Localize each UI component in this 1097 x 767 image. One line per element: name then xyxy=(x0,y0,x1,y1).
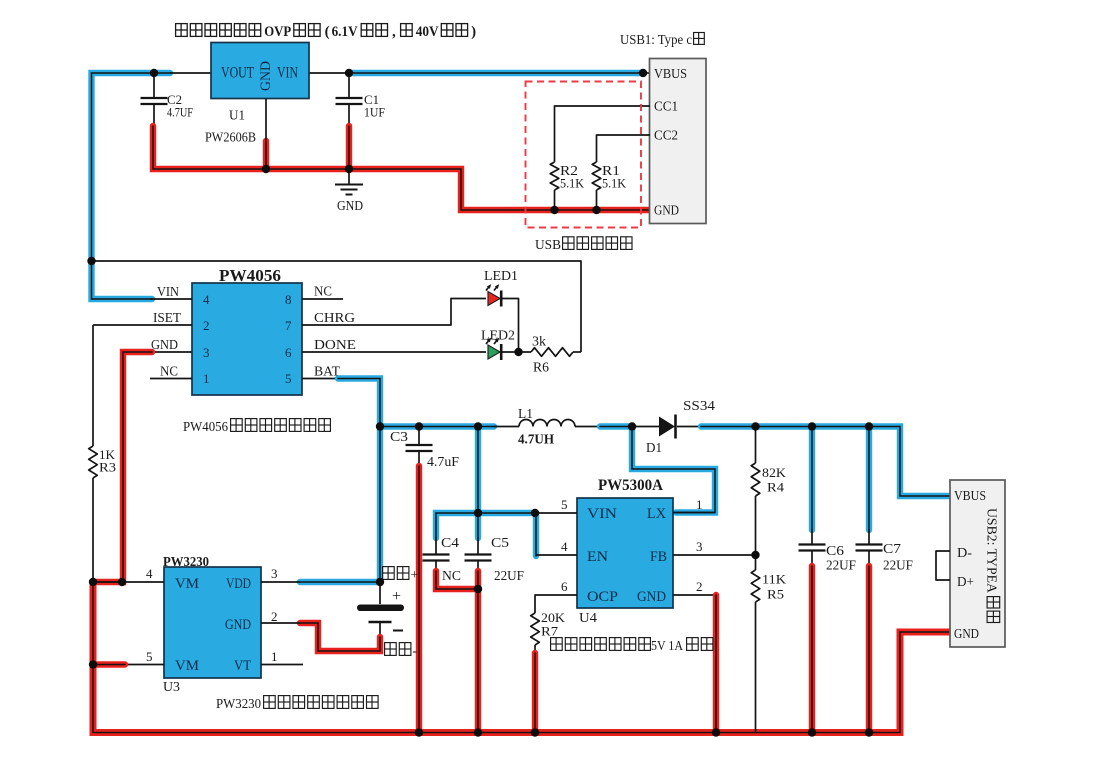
wire VBUS stub into USB1 xyxy=(643,72,650,74)
wire red C3 to ground bus xyxy=(416,466,422,733)
svg-text:R5: R5 xyxy=(767,587,784,602)
wire battery bottom lead xyxy=(379,623,381,638)
wire C6 top lead xyxy=(811,529,813,545)
label 电池- xyxy=(385,643,411,656)
svg-text:(: ( xyxy=(325,24,330,40)
wire DONE to LED2 xyxy=(302,351,486,353)
node VIN junction xyxy=(345,69,353,77)
wire C1 top lead xyxy=(348,73,350,98)
svg-text:-: - xyxy=(413,643,418,658)
wire CHRG to LED1 xyxy=(302,299,486,326)
svg-text:FB: FB xyxy=(650,549,667,565)
wire U3 VDD pin lead xyxy=(261,581,300,583)
resistor R1 xyxy=(592,162,601,190)
wire U1 GND pin lead xyxy=(265,99,267,141)
wire C6 bottom lead xyxy=(811,551,813,568)
wire ISET pin lead xyxy=(93,324,192,326)
svg-text:5: 5 xyxy=(285,371,292,386)
svg-text:VM: VM xyxy=(175,576,199,592)
LED LED1 red xyxy=(486,284,501,306)
wire U4 LX pin lead xyxy=(673,512,715,514)
annotation dashed box USB resistors xyxy=(526,82,642,228)
wire CC2 to R1 xyxy=(597,135,651,162)
capacitor C7 xyxy=(856,545,883,551)
wire red U4 GND to bus xyxy=(713,595,719,733)
wire U3 VM5 pin lead xyxy=(125,664,164,666)
wire red C6 to ground bus xyxy=(809,566,815,733)
svg-text:3: 3 xyxy=(203,345,210,360)
svg-text:VT: VT xyxy=(234,658,251,674)
svg-text:1: 1 xyxy=(203,371,210,386)
wire R7 bottom lead xyxy=(534,645,536,654)
node LX rail xyxy=(628,422,636,430)
node FB xyxy=(751,551,759,559)
svg-text:D+: D+ xyxy=(957,575,974,590)
svg-text:4: 4 xyxy=(561,539,568,554)
svg-text:SS34: SS34 xyxy=(683,398,715,413)
svg-text:LED1: LED1 xyxy=(484,269,518,284)
svg-text:4: 4 xyxy=(203,292,210,307)
svg-text:1UF: 1UF xyxy=(364,106,385,120)
svg-text:CC1: CC1 xyxy=(654,100,678,115)
wire R5 to ground bus xyxy=(755,602,757,733)
node battery plus xyxy=(376,578,384,586)
wire blue LX down to U4 xyxy=(632,427,715,513)
wire C4 top lead xyxy=(435,537,437,555)
svg-text:6: 6 xyxy=(285,345,292,360)
svg-text:8: 8 xyxy=(285,292,292,307)
wire red stub C1 bottom xyxy=(346,126,352,169)
wire blue rail BAT to L1 xyxy=(380,423,494,429)
svg-text:U1: U1 xyxy=(229,109,245,124)
wire red stub U1 GND pin xyxy=(263,141,269,169)
wire blue C7 drop xyxy=(866,427,872,531)
connector USB2 Type-A body xyxy=(950,480,1005,647)
resistor R6 3k xyxy=(531,348,573,357)
wire C2 bottom lead xyxy=(153,104,155,126)
svg-text:GND: GND xyxy=(954,627,979,642)
label USB2 TYPEA rotated 母座 xyxy=(987,597,1000,623)
svg-text:C4: C4 xyxy=(441,535,459,550)
node VM5 junction xyxy=(89,660,97,668)
svg-text:VBUS: VBUS xyxy=(654,67,687,82)
svg-text:7: 7 xyxy=(285,318,292,333)
node bus C6 xyxy=(808,728,816,736)
label USB comm resistors 口通讯电阻 xyxy=(563,237,632,250)
node VM4 left xyxy=(89,578,97,586)
wire C1 bottom lead xyxy=(348,104,350,126)
wire red battery minus to U3 GND xyxy=(300,623,380,651)
node R2 GND xyxy=(550,206,558,214)
wire C5 bottom lead xyxy=(477,561,479,573)
wire ISET down to R3 xyxy=(92,325,94,446)
LED LED2 green xyxy=(486,338,501,360)
svg-text:6: 6 xyxy=(561,579,568,594)
capacitor C1 xyxy=(336,98,363,104)
connector USB1 Type-C body xyxy=(650,59,707,224)
svg-text:2: 2 xyxy=(271,609,278,624)
wire U3 VM4 pin lead xyxy=(93,581,164,583)
svg-text:R4: R4 xyxy=(767,480,785,495)
node VM4 red xyxy=(118,578,126,586)
node C6 tap xyxy=(808,422,816,430)
svg-text:R6: R6 xyxy=(533,360,549,375)
svg-text:ISET: ISET xyxy=(153,310,182,325)
svg-text:NC: NC xyxy=(160,364,178,379)
svg-text:4.7uF: 4.7uF xyxy=(427,454,459,469)
wire CC1 to R2 xyxy=(555,106,651,162)
node C3 tap xyxy=(415,422,423,430)
svg-text:R7: R7 xyxy=(541,624,559,639)
svg-text:VIN: VIN xyxy=(277,65,298,82)
svg-text:PW5300A: PW5300A xyxy=(598,477,663,494)
svg-text:VIN: VIN xyxy=(587,506,617,522)
wire C5 top lead xyxy=(477,537,479,555)
wire R2 to GND bus xyxy=(554,190,556,210)
svg-text:GND: GND xyxy=(258,61,274,91)
IC U3 PW3230 body xyxy=(164,567,261,678)
wire rail to L1 xyxy=(494,426,519,428)
resistor R3 xyxy=(89,446,98,478)
wire blue C6 drop xyxy=(809,427,815,531)
wire U4 GND pin lead xyxy=(673,594,716,596)
inductor L1 xyxy=(519,420,575,427)
capacitor C4 xyxy=(423,555,450,561)
wire U3 GND pin lead xyxy=(261,622,300,624)
svg-text:VIN: VIN xyxy=(157,284,179,299)
svg-text:22UF: 22UF xyxy=(494,568,524,583)
svg-text:): ) xyxy=(471,24,476,40)
wire R3 down to VM row xyxy=(92,478,94,582)
wire U4 OCP pin lead and down xyxy=(535,595,577,613)
wire VIN pin lead xyxy=(150,298,192,300)
wire C2 top lead xyxy=(153,73,155,98)
svg-text:82K: 82K xyxy=(762,465,787,480)
wire GND pin lead xyxy=(150,351,192,353)
ground lead xyxy=(348,169,350,184)
wire C4 bottom lead xyxy=(435,561,437,573)
node VBUS at USB1 xyxy=(639,69,647,77)
wire R6 to corner xyxy=(573,351,581,353)
wire C3 top lead xyxy=(418,427,420,446)
node bus C5 xyxy=(474,728,482,736)
svg-text:PW4056: PW4056 xyxy=(183,419,228,434)
svg-text:2: 2 xyxy=(696,579,703,594)
label PW4056 caption 锂电池充电电路 xyxy=(231,419,331,432)
node C45 tap xyxy=(474,422,482,430)
wire NC pin8 lead xyxy=(302,298,343,300)
wire LED supply R6 to VIN rail xyxy=(92,261,582,352)
wire blue C5 drop xyxy=(475,513,481,538)
svg-text:VM: VM xyxy=(175,658,199,674)
svg-text:2: 2 xyxy=(203,318,210,333)
svg-text:PW2606B: PW2606B xyxy=(205,131,256,146)
svg-text:C5: C5 xyxy=(491,535,509,550)
node bus C7 xyxy=(865,728,873,736)
wire LX node to D1 anode xyxy=(633,426,659,428)
svg-text:D-: D- xyxy=(957,546,972,561)
wire C7 top lead xyxy=(868,529,870,545)
title OVP Chinese part1 输入过压保护 xyxy=(176,24,261,37)
wire U3 VT pin lead xyxy=(261,664,303,666)
svg-text:11K: 11K xyxy=(762,572,787,587)
svg-text:C3: C3 xyxy=(390,429,408,444)
node VOUT junction xyxy=(150,69,158,77)
svg-text:CC2: CC2 xyxy=(654,129,678,144)
wire red R7 to ground bus xyxy=(532,653,538,733)
wire BAT pin lead xyxy=(302,378,338,380)
wire LED2 cathode to R6 xyxy=(502,351,532,353)
wire blue rail down to U4 VIN xyxy=(475,427,481,514)
svg-text:3: 3 xyxy=(271,566,278,581)
capacitor C5 xyxy=(465,555,492,561)
node bus U4 GND xyxy=(712,728,720,736)
svg-text:5: 5 xyxy=(146,649,153,664)
svg-text:CHRG: CHRG xyxy=(314,310,355,325)
wire C7 bottom lead xyxy=(868,551,870,568)
svg-text:R3: R3 xyxy=(99,460,116,475)
wire NC pin1 lead xyxy=(150,378,192,380)
resistor R4 82K xyxy=(751,463,760,496)
wire U4 EN pin lead xyxy=(536,554,577,556)
title OVP Chinese part3 关闭 xyxy=(361,24,387,37)
label boost caption 电路 xyxy=(687,638,713,651)
svg-text:VBUS: VBUS xyxy=(954,489,986,504)
label USB1 Type c 口 xyxy=(694,33,705,45)
node C4 C5 red junction xyxy=(474,585,482,593)
svg-text:+: + xyxy=(392,588,401,605)
svg-text:5V 1A: 5V 1A xyxy=(651,638,683,653)
label 电池+ xyxy=(383,567,409,580)
wire D1 cathode to rail xyxy=(677,426,701,428)
wire LED1 cathode corner xyxy=(502,299,519,353)
svg-text:,: , xyxy=(392,24,396,40)
svg-text:3: 3 xyxy=(696,539,703,554)
wire L1 to LX node xyxy=(575,426,600,428)
node R4 tap xyxy=(751,422,759,430)
wire blue VIN feed horizontal and C4 drop xyxy=(436,513,535,538)
wire red C7 to ground bus xyxy=(866,566,872,733)
capacitor C6 xyxy=(799,545,826,551)
wire red VM5 stub xyxy=(93,661,125,667)
svg-text:D1: D1 xyxy=(646,440,662,455)
svg-text:C6: C6 xyxy=(826,543,844,558)
svg-text:3k: 3k xyxy=(532,334,546,349)
wire red U2 GND down to U3 xyxy=(93,352,152,582)
op-amp U1 PW2606B body xyxy=(211,43,309,99)
svg-text:6.1V: 6.1V xyxy=(332,24,358,40)
svg-text:4: 4 xyxy=(146,566,153,581)
wire U4 FB pin lead xyxy=(673,554,756,556)
svg-text:L1: L1 xyxy=(518,406,533,421)
IC U2 PW4056 body xyxy=(192,283,302,395)
wire C3 bottom lead xyxy=(418,451,420,466)
wire U1 VOUT pin xyxy=(170,72,211,74)
wire blue BAT to rail xyxy=(338,379,380,427)
wire VBUS blue left segment down to U2 VIN xyxy=(92,73,171,299)
svg-text:1: 1 xyxy=(271,649,278,664)
svg-text:USB2: TYPEA: USB2: TYPEA xyxy=(985,508,1000,593)
svg-text:OCP: OCP xyxy=(587,589,618,605)
svg-text:OVP: OVP xyxy=(264,24,291,40)
wire red ground C2 to USB1 GND xyxy=(153,126,650,210)
svg-text:+: + xyxy=(411,567,419,582)
node BAT rail xyxy=(376,422,384,430)
title OVP Chinese part4 耐 xyxy=(401,24,413,37)
wire red C5 down to ground bus xyxy=(475,571,481,733)
node R1 GND xyxy=(592,206,600,214)
wire R1 to GND bus xyxy=(596,190,598,210)
resistor R5 11K xyxy=(751,570,760,602)
resistor R2 xyxy=(550,162,559,190)
svg-text:GND: GND xyxy=(637,589,666,605)
resistor R7 20K xyxy=(531,613,540,645)
svg-text:5.1K: 5.1K xyxy=(560,176,585,191)
node VIN junction U4 xyxy=(531,509,539,517)
node bus C3 xyxy=(415,728,423,736)
node C5 junction xyxy=(474,509,482,517)
svg-text:USB: USB xyxy=(535,237,561,252)
svg-text:U3: U3 xyxy=(163,679,180,694)
svg-text:USB1: Type c: USB1: Type c xyxy=(620,32,692,47)
svg-text:40V: 40V xyxy=(416,24,439,40)
wire red ground bus main xyxy=(93,582,950,733)
svg-text:PW4056: PW4056 xyxy=(219,266,281,285)
svg-text:U4: U4 xyxy=(579,610,597,625)
capacitor C2 xyxy=(141,98,168,104)
svg-text:22UF: 22UF xyxy=(883,558,913,573)
svg-text:1: 1 xyxy=(696,497,703,512)
wire rail to R4 xyxy=(755,427,757,464)
wire blue battery rail vertical xyxy=(377,427,383,583)
svg-text:NC: NC xyxy=(442,568,461,583)
svg-text:VOUT: VOUT xyxy=(221,65,254,82)
svg-text:GND: GND xyxy=(225,617,251,633)
wire red C4 bottom xyxy=(436,571,478,589)
capacitor C3 xyxy=(406,445,433,451)
node LED junction xyxy=(514,348,522,356)
wire U4 VIN pin lead xyxy=(535,512,577,514)
svg-text:4.7UF: 4.7UF xyxy=(167,106,193,120)
wire blue U3 VDD to battery xyxy=(300,579,380,585)
wire blue L1 to D1 xyxy=(600,423,633,429)
wire blue EN drop xyxy=(533,513,539,556)
wire U1 VIN pin xyxy=(309,72,349,74)
wire USB2 data bracket xyxy=(936,551,950,580)
svg-text:C7: C7 xyxy=(883,541,901,556)
wire R4 to FB xyxy=(755,496,757,570)
node C1 GND on bus xyxy=(345,165,353,173)
svg-text:DONE: DONE xyxy=(314,337,356,352)
battery negative plate xyxy=(369,621,392,624)
label PW3230 caption 锂电池保护板电路 xyxy=(264,696,379,709)
svg-text:4.7UH: 4.7UH xyxy=(518,432,554,447)
wire VBUS blue from USB1 to C1 node xyxy=(349,70,643,76)
IC U4 PW5300A body xyxy=(577,498,673,608)
svg-text:NC: NC xyxy=(314,284,332,299)
wire blue output rail to USB2 VBUS xyxy=(701,427,950,497)
title OVP Chinese part2 电路 xyxy=(294,24,320,37)
battery positive plate xyxy=(357,605,404,612)
svg-text:5: 5 xyxy=(561,497,568,512)
node VIN rail to LED supply xyxy=(87,257,95,265)
diode D1 SS34 xyxy=(659,415,676,439)
node C7 tap xyxy=(865,422,873,430)
svg-text:GND: GND xyxy=(337,198,363,213)
svg-text:PW3230: PW3230 xyxy=(216,696,261,711)
svg-text:LX: LX xyxy=(647,506,666,522)
svg-text:GND: GND xyxy=(151,337,178,352)
svg-text:VDD: VDD xyxy=(226,576,251,592)
node bus R7 xyxy=(531,728,539,736)
svg-text:GND: GND xyxy=(654,204,679,219)
wire battery top lead xyxy=(379,582,381,604)
label boost caption 锂电池升压输出 xyxy=(551,638,651,651)
label battery minus sign xyxy=(393,630,403,632)
title OVP Chinese part5 浪涌 xyxy=(441,24,467,37)
node U1 GND on bus xyxy=(262,165,270,173)
svg-text:22UF: 22UF xyxy=(826,558,856,573)
ground symbol GND xyxy=(335,185,363,195)
svg-text:EN: EN xyxy=(587,549,608,565)
svg-text:5.1K: 5.1K xyxy=(602,176,627,191)
